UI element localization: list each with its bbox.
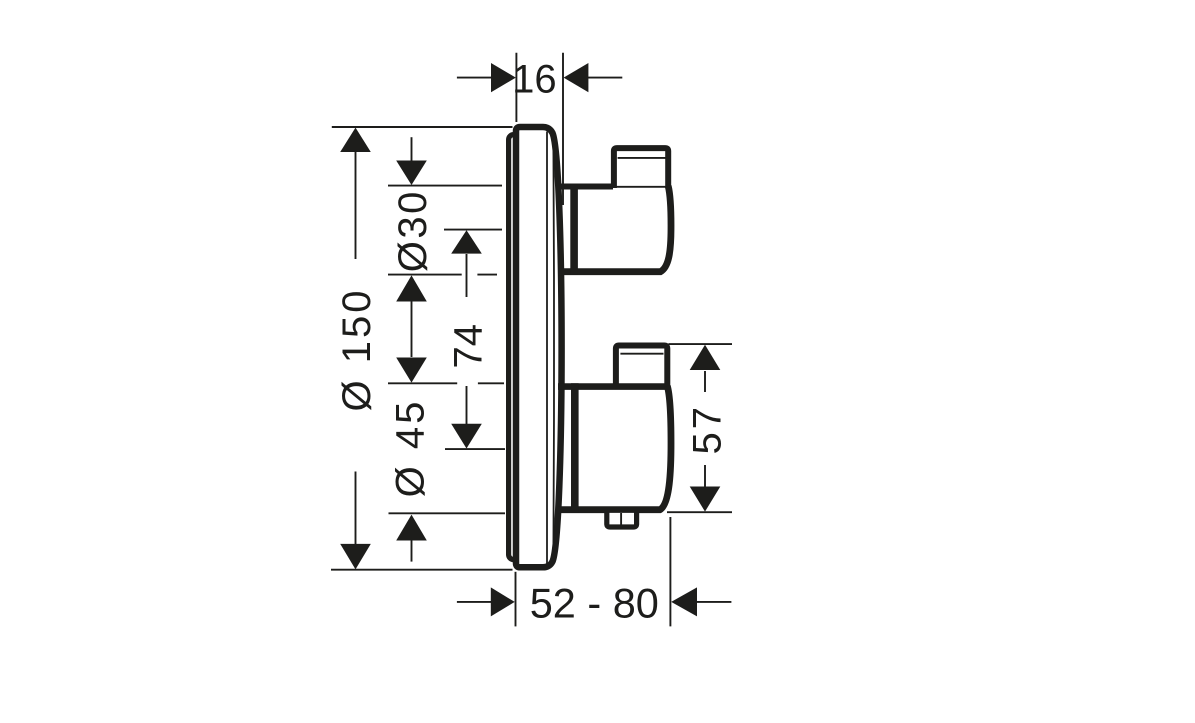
svg-text:Ø 45: Ø 45 xyxy=(389,399,433,498)
svg-text:57: 57 xyxy=(685,404,729,455)
svg-text:16: 16 xyxy=(512,57,557,101)
svg-text:Ø30: Ø30 xyxy=(391,189,435,272)
svg-text:74: 74 xyxy=(446,324,490,369)
svg-text:Ø 150: Ø 150 xyxy=(335,288,379,412)
svg-text:52 - 80: 52 - 80 xyxy=(530,580,659,627)
